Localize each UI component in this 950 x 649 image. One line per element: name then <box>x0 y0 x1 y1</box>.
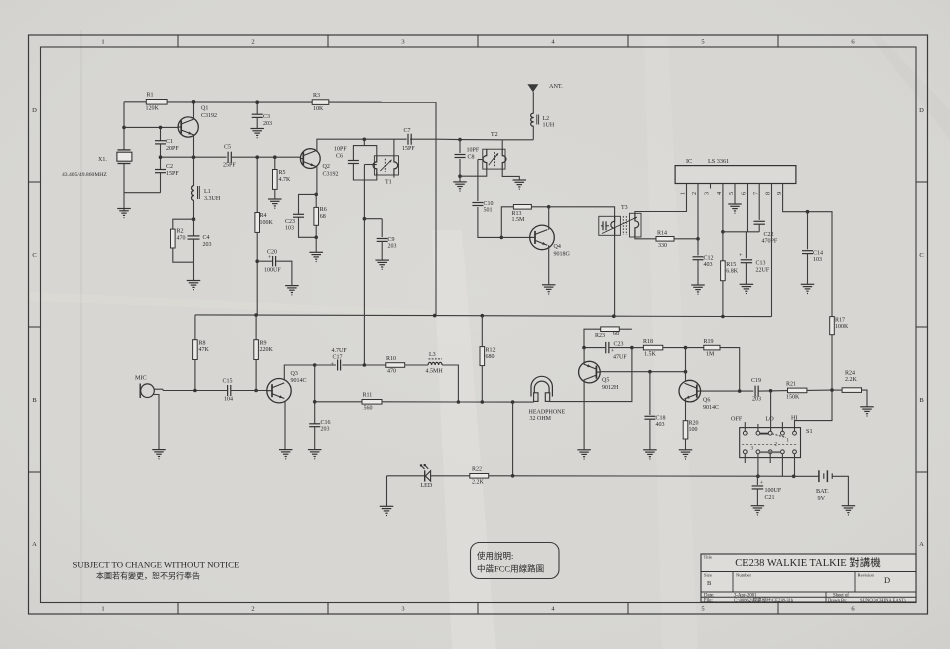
wire audio to LED rail <box>512 402 514 476</box>
svg-text:R13: R13 <box>512 211 522 217</box>
svg-text:100K: 100K <box>835 324 849 330</box>
ground under C9 <box>375 260 389 269</box>
node R22 junction <box>511 474 515 478</box>
ground under T2 <box>513 180 527 189</box>
svg-text:C16: C16 <box>321 420 331 426</box>
LED <box>420 464 433 489</box>
ground under C13 <box>740 284 754 293</box>
wire T1 to audio junction <box>363 219 365 365</box>
wire pin4 to C22 link <box>723 231 759 233</box>
inner border frame <box>41 47 917 603</box>
svg-text:IC: IC <box>686 158 692 165</box>
ground under C8 <box>453 176 467 191</box>
svg-text:9012H: 9012H <box>602 385 619 391</box>
svg-text:203: 203 <box>203 242 212 248</box>
svg-text:203: 203 <box>321 427 330 433</box>
svg-text:C4: C4 <box>203 235 210 241</box>
resistor R21 <box>786 382 832 401</box>
svg-text:120K: 120K <box>146 106 160 112</box>
svg-text:R17: R17 <box>835 318 845 324</box>
wire Q4 emitter <box>548 245 550 285</box>
svg-text:R4: R4 <box>260 213 267 219</box>
svg-text:4.5MH: 4.5MH <box>426 369 444 375</box>
svg-text:2.2K: 2.2K <box>845 377 858 383</box>
wire T2 left pin to ground <box>460 169 487 176</box>
capacitor C14 <box>802 212 823 285</box>
transistor Q2 <box>300 149 338 178</box>
svg-text:D: D <box>884 575 890 585</box>
svg-text:100K: 100K <box>260 220 274 226</box>
svg-text:LO: LO <box>766 416 775 423</box>
node C8 junction <box>458 138 462 142</box>
svg-text:6.8K: 6.8K <box>726 269 739 275</box>
node R19 base junction <box>738 389 742 393</box>
wire C15 to Q3 <box>231 390 267 392</box>
node C18 junction <box>648 370 652 374</box>
wire Q2 collector line <box>317 139 460 151</box>
wire C1 C2 branch <box>160 127 162 192</box>
svg-text:1.5M: 1.5M <box>512 217 526 223</box>
svg-text:R11: R11 <box>363 393 373 399</box>
svg-text:CE238 WALKIE TALKIE 對講機: CE238 WALKIE TALKIE 對講機 <box>735 556 881 569</box>
node Q6 collector junction <box>684 370 688 374</box>
wire C16 R11 branch <box>314 365 316 424</box>
svg-text:9018G: 9018G <box>554 252 571 258</box>
svg-text:+: + <box>739 252 743 259</box>
svg-text:Q3: Q3 <box>291 371 298 377</box>
svg-text:A: A <box>32 541 37 548</box>
crystal X1 <box>62 150 132 178</box>
svg-text:R19: R19 <box>704 339 714 345</box>
node C14 junction <box>806 210 810 214</box>
svg-text:3: 3 <box>401 606 404 613</box>
svg-text:5: 5 <box>701 39 704 46</box>
svg-text:9014C: 9014C <box>291 378 307 384</box>
svg-text:470: 470 <box>387 369 396 375</box>
svg-text:15PF: 15PF <box>402 146 415 152</box>
wire IC pin9 line <box>783 184 832 317</box>
wire Q1 collector <box>193 102 195 119</box>
wire LO to switch <box>770 391 772 432</box>
svg-text:Q5: Q5 <box>602 378 609 384</box>
svg-text:R24: R24 <box>845 371 855 377</box>
svg-text:25PF: 25PF <box>223 163 236 169</box>
svg-text:150K: 150K <box>786 395 800 401</box>
svg-text:C6: C6 <box>336 154 343 160</box>
ground under C18 <box>643 450 657 459</box>
wire L1 to R2 C4 node <box>193 201 195 281</box>
resistor R9 <box>254 315 274 390</box>
svg-text:1: 1 <box>101 39 104 46</box>
svg-text:470PF: 470PF <box>762 239 778 245</box>
node Q4 collector junction <box>547 205 551 209</box>
svg-text:R3: R3 <box>313 93 320 99</box>
wire top rail drop <box>435 102 437 315</box>
inductor L3 <box>426 352 444 375</box>
capacitor C13 22UF <box>739 232 770 284</box>
node Q2 emitter junction <box>314 193 318 197</box>
svg-text:C9: C9 <box>388 237 395 243</box>
wire Q4 to T3 <box>549 207 615 316</box>
svg-text:203: 203 <box>263 121 272 127</box>
ground under R24 <box>860 407 874 416</box>
svg-text:9: 9 <box>776 192 783 195</box>
wire Q2 emitter <box>316 166 318 194</box>
svg-text:C3: C3 <box>263 114 270 120</box>
title block frame <box>701 554 916 602</box>
node R9 mic junction <box>254 389 258 393</box>
wire Q4 collector <box>548 207 550 230</box>
svg-text:C13: C13 <box>756 261 766 267</box>
wire audio line <box>382 401 534 403</box>
resistor R17 <box>830 317 849 391</box>
svg-text:File:: File: <box>704 598 713 603</box>
svg-text:MIC: MIC <box>135 375 147 382</box>
svg-text:2: 2 <box>251 606 254 613</box>
svg-text:+: + <box>760 480 764 487</box>
svg-text:C: C <box>919 252 923 259</box>
wire IC pin3 stub <box>710 184 712 189</box>
transformer T2 <box>483 132 506 169</box>
svg-text:560: 560 <box>364 406 373 412</box>
wire T1 primary top <box>364 139 377 156</box>
resistor R14 <box>656 231 674 250</box>
svg-text:1UH: 1UH <box>543 123 555 129</box>
wire Q3 collector <box>284 365 314 381</box>
svg-text:C10: C10 <box>484 201 494 207</box>
node L1 bottom <box>192 217 196 221</box>
svg-text:S1: S1 <box>806 428 813 435</box>
wire T2 right pin to ground <box>502 169 519 180</box>
ground under C3 <box>250 129 264 138</box>
svg-text:R15: R15 <box>726 262 736 268</box>
ground under R5 <box>268 199 282 208</box>
capacitor C23 103 <box>285 194 316 237</box>
wire Q5 collector <box>583 380 585 450</box>
capacitor C5 <box>223 145 236 169</box>
ground under Q5 <box>577 450 591 459</box>
svg-text:104: 104 <box>224 397 233 403</box>
svg-text:10K: 10K <box>313 106 324 112</box>
resistor R2 <box>171 219 194 262</box>
svg-text:C: C <box>32 252 36 259</box>
svg-text:B: B <box>919 397 924 404</box>
wire T3 secondary top to IC pin1 <box>635 184 687 214</box>
svg-text:R6: R6 <box>320 207 327 213</box>
resistor R15 <box>721 232 739 317</box>
node C3 on rail <box>255 100 259 104</box>
svg-text:15PF: 15PF <box>166 171 179 177</box>
capacitor C1 <box>155 139 179 152</box>
svg-text:Drawn By:: Drawn By: <box>828 597 847 602</box>
ground under C20 <box>285 286 299 295</box>
wire Q6 collector <box>685 348 687 381</box>
node R8 mic junction <box>193 389 197 393</box>
node LO drop junction <box>769 389 773 393</box>
svg-text:R14: R14 <box>657 231 667 237</box>
transistor Q4 <box>530 225 571 257</box>
capacitor C17 4.7UF <box>315 348 365 371</box>
svg-text:R23: R23 <box>595 333 605 339</box>
resistor R19 <box>686 339 740 391</box>
svg-text:R22: R22 <box>472 467 482 473</box>
wire LED rail <box>387 475 794 478</box>
node B+ rail junctions <box>254 313 724 318</box>
wire Q5 emitter <box>583 348 585 365</box>
wire antenna line <box>460 140 533 150</box>
svg-text:330: 330 <box>658 243 667 249</box>
svg-text:SUBJECT TO CHANGE WITHOUT NOTI: SUBJECT TO CHANGE WITHOUT NOTICE <box>73 560 240 570</box>
node Q4 base junction <box>500 236 504 240</box>
svg-text:403: 403 <box>656 422 665 428</box>
resistor R22 <box>470 467 489 486</box>
svg-text:Q2: Q2 <box>323 164 330 170</box>
svg-text:C19: C19 <box>751 378 761 384</box>
node R18 R19 junction <box>684 346 688 350</box>
node T1 bottom <box>363 217 367 221</box>
svg-text:Size: Size <box>704 573 712 578</box>
svg-text:ANT.: ANT. <box>549 83 563 90</box>
svg-text:2: 2 <box>691 192 698 195</box>
svg-text:5: 5 <box>728 192 735 195</box>
node C23 right junction <box>630 346 634 350</box>
node R6 bottom <box>314 236 318 240</box>
wire T1 secondary top <box>393 139 395 177</box>
svg-text:B: B <box>707 580 712 587</box>
node C8 ground junction <box>458 174 462 178</box>
svg-text:C23: C23 <box>285 219 295 225</box>
resistor R1 <box>146 93 168 112</box>
capacitor C12 <box>693 239 714 285</box>
wire C19 to R21 <box>758 390 787 393</box>
svg-text:T2: T2 <box>491 132 498 138</box>
ground under C14 <box>801 284 815 293</box>
svg-text:5: 5 <box>701 606 704 613</box>
svg-text:B: B <box>32 397 37 404</box>
svg-text:4.7UF: 4.7UF <box>332 348 348 354</box>
ground under pin5 <box>728 204 742 213</box>
node audio drop junction <box>511 400 515 404</box>
resistor R11 <box>315 393 382 412</box>
FCC note text <box>477 551 544 574</box>
microphone MIC <box>135 375 154 399</box>
svg-text:103: 103 <box>813 257 822 263</box>
svg-text:7: 7 <box>752 192 759 195</box>
capacitor C9 <box>377 219 397 260</box>
headphone <box>529 376 566 422</box>
svg-text:20PF: 20PF <box>166 146 179 152</box>
wire Q5 rect top <box>584 329 632 347</box>
wire Q4 base <box>501 236 529 238</box>
switch position labels <box>731 415 798 423</box>
svg-text:R12: R12 <box>486 348 496 354</box>
node C1 top <box>159 126 163 130</box>
svg-text:中諧FCC用線路圖: 中諧FCC用線路圖 <box>477 564 544 574</box>
svg-text:R18: R18 <box>643 339 653 345</box>
svg-text:L2: L2 <box>543 116 550 122</box>
svg-text:A: A <box>919 541 924 548</box>
wire IC pin5 ground <box>734 184 736 205</box>
wire headphone to Q5 loop <box>550 348 632 402</box>
node pin2 R14 C12 junction <box>696 237 700 241</box>
transistor Q1 <box>178 106 217 138</box>
svg-text:T1: T1 <box>385 180 392 186</box>
node pin4 junction <box>721 230 725 234</box>
wire IC pin8 drop <box>771 184 773 317</box>
node L3 audio junction <box>457 400 461 404</box>
transformer T3 <box>599 205 641 237</box>
capacitor C3 <box>252 102 272 128</box>
transistor Q6 <box>679 380 719 411</box>
capacitor C16 <box>309 420 330 450</box>
capacitor C19 <box>751 378 761 403</box>
transistor Q3 <box>267 371 307 403</box>
wire Q5 base line <box>600 371 685 373</box>
svg-text:C17: C17 <box>333 355 343 361</box>
svg-text:C7: C7 <box>404 128 411 134</box>
resistor R10 <box>364 356 428 375</box>
resistor R6 <box>314 194 327 237</box>
transistor Q5 <box>579 361 619 391</box>
wire main oscillator line <box>161 156 301 158</box>
svg-text:Q6: Q6 <box>703 398 710 404</box>
svg-text:BAT.: BAT. <box>816 488 829 495</box>
svg-text:403: 403 <box>704 262 713 268</box>
ground under R6 <box>309 237 323 261</box>
wire IC pin2 <box>697 184 699 239</box>
capacitor C8 <box>455 140 480 177</box>
svg-text:Q1: Q1 <box>201 106 208 112</box>
svg-text:10PF: 10PF <box>334 147 347 153</box>
svg-text:+: + <box>331 361 335 368</box>
svg-text:C8: C8 <box>468 155 475 161</box>
svg-text:R20: R20 <box>689 421 699 427</box>
wire Q3 emitter <box>284 401 286 450</box>
node C17 out junction <box>363 363 367 367</box>
ground under LED <box>380 506 394 515</box>
wire L3 to audio line <box>442 365 458 402</box>
capacitor C22 470PF <box>754 184 778 245</box>
resistor R23 <box>595 327 619 339</box>
ground under C16 <box>308 450 322 459</box>
svg-text:C12: C12 <box>704 256 714 262</box>
svg-text:Q4: Q4 <box>554 244 561 250</box>
ground under R20 <box>679 450 693 459</box>
node C23 left junction <box>582 346 586 350</box>
capacitor C23 47UF <box>584 342 632 361</box>
svg-text:32 OHM: 32 OHM <box>530 416 552 422</box>
wire B+ rail <box>195 315 772 317</box>
svg-text:47K: 47K <box>199 347 210 353</box>
svg-text:HI: HI <box>791 415 798 422</box>
wire T1 tap <box>364 165 376 219</box>
node T1 top junction <box>363 138 367 142</box>
svg-text:22UF: 22UF <box>756 268 770 274</box>
capacitor C6 <box>334 146 377 180</box>
inductor L2 <box>531 113 555 140</box>
svg-text:100UF: 100UF <box>264 268 281 274</box>
svg-text:9V: 9V <box>818 495 826 502</box>
svg-text:Number: Number <box>736 573 752 578</box>
capacitor C4 <box>188 219 212 262</box>
capacitor C20 100UF <box>257 250 292 286</box>
ground under MIC <box>152 450 166 459</box>
svg-text:103: 103 <box>285 226 294 232</box>
svg-text:2.2K: 2.2K <box>472 480 485 486</box>
wire crystal branch <box>124 102 161 212</box>
resistor R5 <box>273 157 292 199</box>
resistor R8 <box>193 315 210 391</box>
svg-text:68: 68 <box>613 331 619 337</box>
resistor R18 <box>632 339 686 358</box>
resistor R4 <box>255 157 274 315</box>
svg-text:203: 203 <box>388 244 397 250</box>
svg-text:43.405/49.860MHZ: 43.405/49.860MHZ <box>62 172 107 178</box>
ground under Q3 <box>279 450 293 459</box>
capacitor C18 <box>644 372 665 450</box>
svg-text:C:\00862\線路設計\CE238-31b: C:\00862\線路設計\CE238-31b <box>734 597 794 604</box>
svg-text:Revision: Revision <box>858 573 875 578</box>
svg-text:Title: Title <box>704 555 713 560</box>
svg-text:220K: 220K <box>260 347 274 353</box>
node osc line junctions <box>159 155 277 159</box>
svg-text:3: 3 <box>401 39 404 46</box>
capacitor C21 100UF <box>752 476 782 506</box>
ground under battery <box>842 506 856 515</box>
wire T1 bottom to C9 <box>364 218 382 220</box>
node R12 audio junction <box>481 400 485 404</box>
svg-text:C23: C23 <box>614 342 624 348</box>
svg-text:3: 3 <box>704 192 711 195</box>
svg-text:C21: C21 <box>765 495 775 501</box>
svg-text:R9: R9 <box>260 341 267 347</box>
node switch rail junctions <box>756 474 795 478</box>
svg-text:本圖若有變更，恕不另行奉告: 本圖若有變更，恕不另行奉告 <box>96 571 200 581</box>
inductor L1 <box>192 157 221 202</box>
svg-text:3.3UH: 3.3UH <box>204 196 221 202</box>
svg-text:9014C: 9014C <box>703 405 719 411</box>
svg-text:+: + <box>268 254 272 261</box>
svg-text:SUNCO(CHINA EAST): SUNCO(CHINA EAST) <box>860 598 906 603</box>
svg-text:R21: R21 <box>786 382 796 388</box>
svg-text:HEADPHONE: HEADPHONE <box>529 410 566 416</box>
wire Q1 base lead <box>124 126 178 128</box>
capacitor C15 <box>223 379 234 403</box>
IC pin numbers <box>680 192 783 195</box>
svg-text:68: 68 <box>320 214 326 220</box>
node R17 R21 R24 junction <box>830 388 834 392</box>
svg-text:10PF: 10PF <box>467 148 480 154</box>
IC LS3361 box <box>675 158 796 184</box>
svg-text:680: 680 <box>486 354 495 360</box>
node Q1 collector on rail <box>192 100 196 104</box>
svg-text:1: 1 <box>680 192 687 195</box>
wire Q6 emitter <box>685 399 687 421</box>
svg-text:6: 6 <box>741 192 748 195</box>
svg-text:C3192: C3192 <box>201 113 217 119</box>
node Q3 collector C17 junction <box>313 363 317 367</box>
change notice text <box>73 560 240 581</box>
switch S1 <box>740 422 813 476</box>
resistor R20 <box>683 421 698 450</box>
svg-text:C18: C18 <box>656 416 666 422</box>
ground under Q4 <box>542 285 556 294</box>
svg-text:100UF: 100UF <box>765 488 782 494</box>
svg-text:C3192: C3192 <box>323 172 339 178</box>
wire mic ground <box>153 395 159 450</box>
wire mic output <box>154 389 228 390</box>
svg-text:X1.: X1. <box>98 157 107 163</box>
